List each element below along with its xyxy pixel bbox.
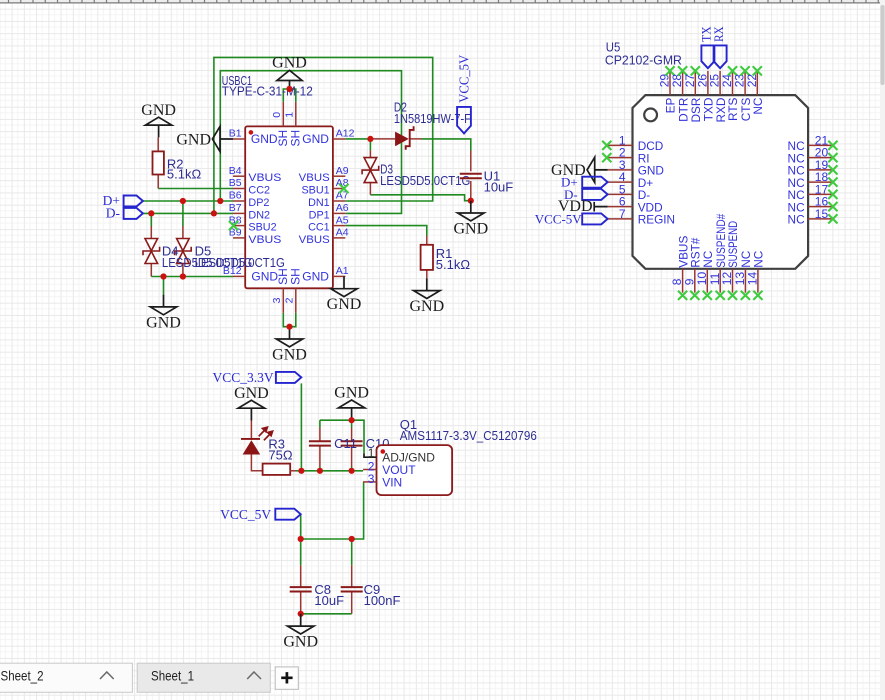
svg-text:A1: A1	[336, 265, 349, 277]
svg-text:15: 15	[815, 207, 829, 221]
svg-text:NC: NC	[701, 250, 715, 268]
svg-text:1: 1	[368, 446, 375, 460]
svg-text:Sheet_2: Sheet_2	[1, 668, 44, 684]
svg-text:SBU1: SBU1	[301, 184, 329, 196]
svg-text:2: 2	[283, 297, 295, 303]
svg-text:14: 14	[746, 272, 760, 286]
svg-text:0: 0	[271, 112, 283, 118]
svg-text:Sheet_1: Sheet_1	[151, 668, 194, 684]
svg-text:VCC_5V: VCC_5V	[457, 55, 472, 103]
svg-text:DP2: DP2	[248, 197, 269, 209]
svg-text:7: 7	[619, 207, 626, 221]
svg-text:VBUS: VBUS	[299, 172, 330, 184]
svg-text:DN1: DN1	[308, 197, 330, 209]
svg-text:GND: GND	[272, 347, 307, 364]
svg-text:B7: B7	[229, 202, 242, 214]
svg-text:CP2102-GMR: CP2102-GMR	[605, 52, 682, 67]
svg-text:GND: GND	[234, 385, 269, 402]
svg-text:GND: GND	[334, 385, 369, 402]
svg-text:NC: NC	[752, 250, 766, 268]
svg-text:GND: GND	[146, 314, 181, 331]
svg-text:SH: SH	[288, 130, 302, 147]
svg-text:DP1: DP1	[309, 209, 330, 221]
svg-text:GND: GND	[251, 269, 278, 283]
svg-text:3: 3	[368, 472, 375, 486]
svg-text:D-: D-	[106, 206, 121, 221]
svg-text:10uF: 10uF	[484, 179, 514, 194]
svg-text:A12: A12	[336, 128, 355, 140]
svg-text:GND: GND	[327, 296, 362, 313]
svg-text:VBUS: VBUS	[248, 234, 281, 246]
svg-text:B1: B1	[229, 128, 242, 140]
svg-text:RX: RX	[711, 26, 726, 42]
svg-text:NC: NC	[788, 213, 806, 227]
svg-text:VCC_5V: VCC_5V	[220, 507, 271, 522]
svg-text:GND: GND	[302, 269, 329, 283]
svg-text:1N5819HW-7-F: 1N5819HW-7-F	[394, 111, 471, 126]
svg-text:3: 3	[271, 297, 283, 303]
svg-text:SBU2: SBU2	[248, 222, 276, 234]
svg-text:75Ω: 75Ω	[268, 447, 292, 462]
svg-text:VCC-5V: VCC-5V	[535, 211, 583, 226]
svg-text:GND: GND	[302, 132, 329, 146]
svg-text:100nF: 100nF	[364, 593, 401, 608]
svg-text:10uF: 10uF	[314, 593, 344, 608]
svg-text:B4: B4	[229, 165, 242, 177]
svg-text:LESD5D5.0CT1G: LESD5D5.0CT1G	[380, 173, 470, 188]
svg-text:A6: A6	[336, 202, 349, 214]
svg-text:GND: GND	[141, 102, 176, 119]
svg-text:NC: NC	[751, 97, 765, 115]
svg-text:VCC_3.3V: VCC_3.3V	[212, 370, 273, 385]
svg-text:CC2: CC2	[248, 184, 270, 196]
svg-text:VIN: VIN	[382, 475, 402, 489]
svg-text:1: 1	[283, 112, 295, 118]
svg-text:GND: GND	[272, 55, 307, 72]
svg-text:B5: B5	[229, 177, 242, 189]
svg-text:A4: A4	[336, 227, 349, 239]
svg-text:GND: GND	[453, 221, 488, 238]
svg-text:REGIN: REGIN	[638, 213, 675, 227]
svg-text:DN2: DN2	[248, 209, 270, 221]
svg-text:CC1: CC1	[308, 222, 330, 234]
svg-text:10: 10	[695, 272, 709, 286]
svg-text:GND: GND	[251, 132, 278, 146]
svg-text:B6: B6	[229, 190, 242, 202]
svg-text:22: 22	[745, 74, 759, 88]
svg-text:GND: GND	[409, 298, 444, 315]
svg-text:A5: A5	[336, 214, 349, 226]
svg-text:GND: GND	[176, 131, 211, 148]
svg-text:AMS1117-3.3V_C5120796: AMS1117-3.3V_C5120796	[400, 428, 537, 443]
svg-text:SH: SH	[288, 268, 302, 285]
svg-text:5.1kΩ: 5.1kΩ	[436, 257, 471, 272]
svg-text:LESD5D5.0CT1G: LESD5D5.0CT1G	[195, 255, 285, 270]
svg-text:TYPE-C-31-M-12: TYPE-C-31-M-12	[222, 84, 313, 99]
svg-text:SUSPEND: SUSPEND	[726, 221, 740, 268]
svg-text:VBUS: VBUS	[299, 234, 330, 246]
svg-text:VBUS: VBUS	[248, 172, 281, 184]
svg-text:C11: C11	[334, 436, 357, 451]
svg-text:A9: A9	[336, 165, 349, 177]
svg-text:GND: GND	[283, 634, 318, 651]
svg-text:12: 12	[720, 272, 734, 286]
svg-text:5.1kΩ: 5.1kΩ	[167, 167, 202, 182]
